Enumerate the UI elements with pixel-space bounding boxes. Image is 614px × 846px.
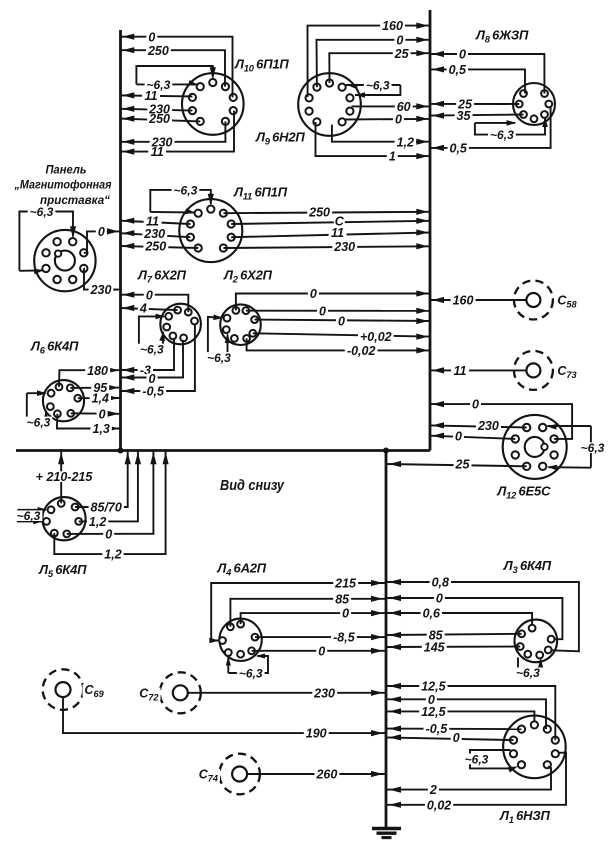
svg-text:Л12 6Е5С: Л12 6Е5С xyxy=(496,484,551,501)
wire 0 from lower bus to Л3 right pin xyxy=(386,598,562,639)
tube socket Л1 6Н3П xyxy=(503,716,566,779)
tube socket Л2 6Х2П xyxy=(220,304,261,345)
svg-text:0,8: 0,8 xyxy=(432,576,449,590)
svg-text:Л5 6К4П: Л5 6К4П xyxy=(38,562,87,579)
capacitor C73 xyxy=(514,351,553,390)
svg-text:1,2: 1,2 xyxy=(104,548,121,562)
wire 2 from lower bus to Л1 pin br xyxy=(386,767,551,790)
svg-text:~6,3: ~6,3 xyxy=(174,184,198,198)
svg-text:11: 11 xyxy=(151,145,164,159)
wire 1,3 from Л6 pin bl to wall xyxy=(57,414,121,429)
svg-text:Л9 6Н2П: Л9 6Н2П xyxy=(255,130,305,147)
wire 0,5 from bus to Л8 pin tr2 xyxy=(430,107,551,148)
svg-text:0: 0 xyxy=(395,113,402,127)
svg-text:11: 11 xyxy=(454,364,467,378)
wire ~6,3 heater bracket Л3 xyxy=(518,658,541,673)
wire 0,02 from lower bus to Л1 pin rl xyxy=(386,753,566,805)
svg-text:0: 0 xyxy=(396,33,403,47)
wire -0,02 from Л2 pin br to bus xyxy=(247,338,430,350)
wire 180 from Л6 pin tl to wall xyxy=(59,370,121,387)
svg-text:25: 25 xyxy=(394,47,410,61)
svg-text:25: 25 xyxy=(455,458,471,472)
wire 0 from lower bus to Л1 pin tr xyxy=(386,699,546,729)
svg-text:~6,3: ~6,3 xyxy=(239,667,263,681)
svg-text:~6,3: ~6,3 xyxy=(366,79,390,93)
wire 0 from Л2 pin top to bus xyxy=(236,294,430,311)
svg-text:2: 2 xyxy=(429,783,437,797)
svg-text:Вид снизу: Вид снизу xyxy=(220,478,285,494)
svg-text:0: 0 xyxy=(453,731,460,745)
svg-text:0: 0 xyxy=(98,225,105,239)
svg-text:~6,3: ~6,3 xyxy=(140,343,164,357)
wire ~6,3 heater bracket Панель xyxy=(19,212,73,271)
wire 0 from Панель pin ru to wall xyxy=(84,231,121,252)
wire 250 to Л10 pin tr xyxy=(121,50,226,86)
wire ~6,3 heater bracket Л1 xyxy=(470,750,512,768)
wire 230 to Л10 pin br xyxy=(121,121,226,141)
wire 0 from Л9 pin tl to bus xyxy=(317,40,431,87)
svg-text:250: 250 xyxy=(148,112,170,126)
wire 25 from lower bus to Л12 pin bl xyxy=(386,464,527,466)
node junction bus/bottom xyxy=(383,448,389,454)
svg-text:0: 0 xyxy=(472,398,479,412)
tube socket Л7 6Х2П xyxy=(160,304,201,345)
svg-text:~6,3: ~6,3 xyxy=(490,128,514,142)
svg-text:-0,5: -0,5 xyxy=(142,385,165,399)
wire 85/70 from Л5 pin tr to chassis bottom xyxy=(75,451,128,508)
wire 0 from wall to Л12 pin lu xyxy=(430,436,515,439)
svg-text:0: 0 xyxy=(342,607,349,621)
svg-text:-0,5: -0,5 xyxy=(426,722,449,736)
svg-text:1,2: 1,2 xyxy=(89,515,106,529)
svg-text:4: 4 xyxy=(139,302,147,316)
svg-text:0,6: 0,6 xyxy=(423,607,441,621)
wire ~6,3 heater bracket Л8 xyxy=(475,122,515,124)
capacitor C74 xyxy=(219,754,260,795)
wire ~6,3 heater bracket Л12 xyxy=(590,426,592,468)
svg-text:0,5: 0,5 xyxy=(450,142,468,156)
tube socket Л10 6П1П xyxy=(182,73,244,135)
svg-text:11: 11 xyxy=(331,226,344,240)
wire -8,5 from Л4 right pin to lower bus xyxy=(255,636,386,638)
svg-text:230: 230 xyxy=(313,686,335,700)
svg-text:0: 0 xyxy=(105,527,112,541)
wire 0 from Л6 pin br to wall xyxy=(71,412,121,415)
wire -0,5 from lower bus to Л1 pin tl xyxy=(386,728,522,731)
svg-text:160: 160 xyxy=(382,19,403,33)
svg-text:0,02: 0,02 xyxy=(427,798,451,812)
tube socket Л8 6Ж3П xyxy=(513,83,555,125)
svg-text:0: 0 xyxy=(338,315,345,329)
wire +0,02 from Л2 pin rl to bus xyxy=(253,333,430,336)
capacitor C69 xyxy=(43,669,84,710)
wire 230 to Л11 pin ll xyxy=(121,233,191,237)
svg-text:0: 0 xyxy=(310,287,317,301)
wire 12,5 from lower bus to Л1 top pin xyxy=(386,711,534,721)
wire 230 from Л11 pin br to bus xyxy=(223,246,430,248)
svg-text:Л6 6К4П: Л6 6К4П xyxy=(30,339,79,356)
tube socket Л12 6Е5С xyxy=(503,415,567,479)
wire ~6,3 heater bracket Л2 xyxy=(208,317,222,357)
wire 230 from wall to Л12 pin tl xyxy=(430,425,527,427)
wire 0 to Л7 pin tr xyxy=(121,295,189,312)
svg-text:12,5: 12,5 xyxy=(421,705,446,719)
svg-text:Л2 6Х2П: Л2 6Х2П xyxy=(223,268,273,285)
svg-text:0: 0 xyxy=(148,30,155,44)
svg-text:+ 210-215: + 210-215 xyxy=(36,470,94,484)
svg-text:0: 0 xyxy=(99,407,106,421)
wire 0 from bus to Л8 pin tr xyxy=(430,54,544,94)
tube socket Л3 6К4П xyxy=(515,620,558,663)
wire chassis bottom edge xyxy=(16,449,430,452)
wire 95 from Л6 pin tr to wall xyxy=(70,387,120,389)
wire 0,8 from lower bus to Л3 pin br xyxy=(386,582,579,651)
wire 11 to Л10 pin rl xyxy=(121,111,235,152)
wire 12,5 from lower bus to Л1 pin ru xyxy=(386,686,555,740)
svg-text:~6,3: ~6,3 xyxy=(30,205,54,219)
svg-text:0: 0 xyxy=(459,48,466,62)
svg-text:~6,3: ~6,3 xyxy=(465,752,489,766)
svg-text:12,5: 12,5 xyxy=(421,680,446,694)
wire 230 from Панель pin rl to wall xyxy=(84,268,121,289)
svg-text:Л1 6НЗП: Л1 6НЗП xyxy=(499,808,551,825)
wire ~6,3 heater bracket Л4 xyxy=(228,656,268,673)
tube socket Л11 6П1П xyxy=(179,199,242,262)
wire -3 to Л7 pin bl xyxy=(121,338,175,370)
wire 250 to Л11 pin bl xyxy=(121,246,199,248)
tube socket Л5 6К4П xyxy=(42,497,85,540)
capacitor C72 xyxy=(160,672,201,713)
wire 260 from C74 to lower bus xyxy=(247,773,386,775)
svg-text:230: 230 xyxy=(333,240,355,254)
wire 0 from wall to Л12 pin ru xyxy=(430,404,572,439)
svg-text:85: 85 xyxy=(335,592,350,606)
wire C from Л11 pin ru to bus xyxy=(231,221,430,224)
tube socket Л9 6Н2П xyxy=(298,73,361,136)
wire 11 from Л11 pin rl to bus xyxy=(231,233,430,238)
wire 0,6 from lower bus to Л3 top pin xyxy=(386,613,532,625)
wire 1,2 from Л5 pin r to chassis bottom xyxy=(79,451,138,522)
wire 0 to Л10 pin ru xyxy=(121,37,233,98)
svg-text:0: 0 xyxy=(146,288,153,302)
wire 250 to Л10 pin bl xyxy=(121,119,201,122)
wire 1,2 from Л5 pin bl to chassis bottom xyxy=(54,451,165,555)
svg-text:35: 35 xyxy=(457,109,472,123)
svg-text:1: 1 xyxy=(389,150,396,164)
wire 0 from Л4 pin br to lower bus xyxy=(252,650,386,652)
tube socket Л6 6К4П xyxy=(43,380,84,421)
wire ~6,3 heater bracket Л7 xyxy=(139,316,164,349)
svg-text:250: 250 xyxy=(147,44,169,58)
wire right chassis edge (bus) xyxy=(429,10,432,451)
wire 230 to Л10 pin ll xyxy=(121,109,193,111)
svg-text:230: 230 xyxy=(477,419,499,433)
wire 250 from Л11 pin tr to bus xyxy=(223,212,430,213)
svg-text:260: 260 xyxy=(315,768,337,782)
wire 0,5 from bus to Л8 pin tl xyxy=(430,69,525,93)
wire ~6,3 heater bracket Л6 xyxy=(27,392,46,394)
wire ~6,3 heater bracket Л9 xyxy=(346,84,400,86)
wire +210-215 from Л5 top pin to chassis bottom xyxy=(60,451,62,504)
node junction wall/bottom xyxy=(118,448,124,454)
wire 1,2 from Л9 to bus xyxy=(332,125,430,142)
wire 1,4 from Л6 pin r to wall xyxy=(78,397,121,399)
svg-text:215: 215 xyxy=(334,577,357,591)
svg-text:Л7 6Х2П: Л7 6Х2П xyxy=(137,268,187,285)
svg-text:Л8 6ЖЗП: Л8 6ЖЗП xyxy=(475,28,529,45)
wire ~6,3 heater bracket Л11 xyxy=(150,190,211,212)
socket Панель (octal) xyxy=(34,230,95,291)
capacitor C58 xyxy=(514,281,553,320)
svg-text:Л4 6А2П: Л4 6А2П xyxy=(216,561,266,578)
svg-text:230: 230 xyxy=(90,283,112,297)
wire 0 from Л5 pin br to chassis bottom xyxy=(67,451,154,534)
svg-text:-0,02: -0,02 xyxy=(347,344,376,358)
svg-text:0: 0 xyxy=(318,644,325,658)
svg-text:145: 145 xyxy=(424,641,446,655)
wire 0 from lower bus to Л1 pin lu xyxy=(386,737,514,740)
wire 145 from lower bus to Л3 pin ll xyxy=(386,646,520,649)
wire 160 from C58 to wall xyxy=(430,299,527,301)
wire 11 to Л11 pin lu xyxy=(121,221,191,224)
wire 85 from Л4 pin tl to lower bus xyxy=(230,599,386,627)
svg-text:160: 160 xyxy=(453,294,474,308)
svg-text:Панель: Панель xyxy=(46,163,87,177)
wire 85 from lower bus to Л3 pin lu xyxy=(386,634,522,635)
svg-text:~6,3: ~6,3 xyxy=(516,666,540,680)
svg-text:„Магнитофонная: „Магнитофонная xyxy=(14,178,112,192)
wire -0,5 to Л7 pin r xyxy=(121,324,195,391)
wire 0 from Л4 top pin to lower bus xyxy=(241,613,386,624)
wire 25 from bus to Л8 pin l xyxy=(430,103,519,105)
svg-text:0: 0 xyxy=(455,429,462,443)
svg-text:85/70: 85/70 xyxy=(91,501,122,515)
wire ~6,3 heater bracket Л5 xyxy=(18,509,46,511)
svg-text:+0,02: +0,02 xyxy=(360,330,392,344)
svg-text:180: 180 xyxy=(87,364,108,378)
wire 215 from Л4 left pin to lower bus xyxy=(211,583,386,641)
wire lower ground bus xyxy=(385,451,388,828)
svg-text:250: 250 xyxy=(144,240,166,254)
wire 160 from Л9 pin lu to bus xyxy=(308,26,431,97)
svg-text:190: 190 xyxy=(306,727,327,741)
svg-text:1,3: 1,3 xyxy=(93,422,110,436)
svg-text:Л10 6П1П: Л10 6П1П xyxy=(234,57,289,74)
wire 0 from Л2 pin tr to bus xyxy=(246,310,430,312)
svg-text:1,4: 1,4 xyxy=(92,392,109,406)
wire 35 from bus to Л8 pin bl xyxy=(430,115,524,116)
svg-text:11: 11 xyxy=(145,89,158,103)
wire 0 from Л9 pin br to bus xyxy=(344,118,430,121)
svg-text:Л3 6К4П: Л3 6К4П xyxy=(503,558,552,575)
svg-text:Л11 6П1П: Л11 6П1П xyxy=(233,185,288,202)
wire 25 from Л9 pin top to bus xyxy=(329,53,430,83)
wire 60 from Л9 pin rl to bus xyxy=(352,105,431,107)
wire 11 from C73 to wall xyxy=(430,369,527,371)
wire 0 from Л2 pin ru to bus xyxy=(255,320,430,321)
ground symbol xyxy=(372,827,401,831)
svg-text:-8,5: -8,5 xyxy=(333,631,356,645)
wire 230 from C72 to lower bus xyxy=(188,692,387,694)
svg-text:250: 250 xyxy=(308,205,330,219)
svg-text:0: 0 xyxy=(436,592,443,606)
wire 0 to Л7 pin bm xyxy=(121,340,184,378)
wire 190 from C69 to lower bus xyxy=(63,697,386,733)
svg-text:~6,3: ~6,3 xyxy=(207,351,231,365)
svg-text:0: 0 xyxy=(319,304,326,318)
svg-text:~6,3: ~6,3 xyxy=(17,509,41,523)
svg-text:1,2: 1,2 xyxy=(397,135,414,149)
tube socket Л4 6А2П xyxy=(219,619,261,661)
wire 11 to Л10 pin lu xyxy=(121,95,193,96)
wire 4 to Л7 pin top xyxy=(121,308,178,310)
svg-text:~6,3: ~6,3 xyxy=(27,415,51,429)
wire 1 from Л9 to bus xyxy=(316,122,431,156)
wire ~6,3 heater bracket Л10 xyxy=(136,66,212,84)
svg-text:0,5: 0,5 xyxy=(449,63,467,77)
svg-text:~6,3: ~6,3 xyxy=(581,441,605,455)
wire left chassis edge (wall) xyxy=(119,30,122,451)
